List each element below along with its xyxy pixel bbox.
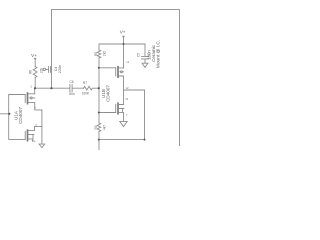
svg-text:100K: 100K bbox=[82, 92, 90, 96]
svg-text:80n: 80n bbox=[69, 92, 75, 96]
svg-text:R7: R7 bbox=[83, 81, 87, 85]
svg-text:R5: R5 bbox=[94, 52, 98, 56]
svg-text:13: 13 bbox=[125, 97, 128, 101]
svg-text:Mount @ I.C.: Mount @ I.C. bbox=[155, 40, 161, 68]
svg-text:2: 2 bbox=[31, 84, 33, 88]
svg-text:22k: 22k bbox=[39, 68, 43, 74]
svg-text:4k7: 4k7 bbox=[102, 125, 106, 130]
svg-text:CD4007: CD4007 bbox=[18, 107, 23, 124]
svg-text:4: 4 bbox=[34, 140, 36, 144]
svg-text:2k2: 2k2 bbox=[102, 51, 106, 56]
svg-text:V+: V+ bbox=[120, 30, 126, 35]
svg-text:R6: R6 bbox=[28, 70, 32, 74]
svg-text:12: 12 bbox=[126, 86, 129, 90]
svg-text:V+: V+ bbox=[31, 53, 37, 58]
svg-text:220n: 220n bbox=[57, 65, 62, 74]
svg-text:Ceramic: Ceramic bbox=[151, 44, 156, 62]
svg-text:C6: C6 bbox=[69, 80, 73, 84]
svg-text:7: 7 bbox=[35, 106, 37, 110]
svg-text:14: 14 bbox=[126, 60, 129, 64]
svg-text:R9: R9 bbox=[94, 125, 98, 129]
svg-text:7: 7 bbox=[126, 113, 128, 117]
svg-text:C5: C5 bbox=[137, 53, 141, 57]
svg-text:CD4007: CD4007 bbox=[106, 85, 111, 102]
